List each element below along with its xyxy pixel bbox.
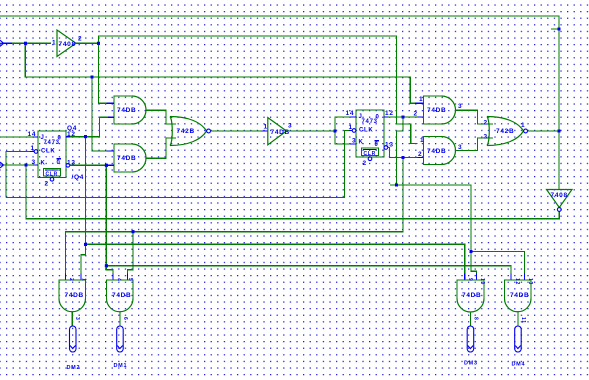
buffer U1 [57, 30, 76, 57]
buffer U4 [268, 118, 287, 145]
FF2 Qbar bubble [384, 146, 388, 150]
svg-text:8: 8 [473, 317, 479, 320]
svg-text:9: 9 [467, 278, 473, 281]
svg-text:742B: 742B [496, 128, 514, 135]
svg-text:K: K [41, 161, 46, 167]
rail2 y=218.8 triangle out to K [26, 165, 559, 219]
junction at (25.4,43.3) [24, 42, 27, 45]
wire U4 out to FF2 J/K [287, 117, 351, 144]
svg-text:1: 1 [81, 278, 87, 281]
svg-text:0: 0 [57, 160, 61, 166]
junction at (106.4,165.3) [105, 164, 108, 167]
svg-text:0: 0 [375, 142, 379, 148]
svg-text:1: 1 [52, 40, 56, 47]
junction dots top layer [24, 28, 561, 268]
wire net top rail y=16 [0, 16, 559, 190]
AND gate U5 [424, 96, 442, 124]
U11 output stub [517, 312, 519, 326]
svg-text:5: 5 [127, 278, 133, 281]
junction at (396.5,185) [395, 184, 398, 187]
svg-text:1: 1 [521, 122, 525, 129]
svg-text:DM3: DM3 [464, 361, 478, 367]
junction at (85.5,244.4) [84, 243, 87, 246]
OR gate OR1 [170, 117, 207, 146]
wire buffer U1 output [76, 42, 99, 44]
svg-text:12: 12 [514, 278, 520, 285]
svg-text:1: 1 [419, 96, 423, 103]
FF1 CLK wire from rail1 [6, 152, 30, 198]
flip-flop FF2 7473 [356, 110, 384, 157]
svg-text:6: 6 [122, 317, 128, 320]
junction at (106.4,265.8) [105, 264, 108, 267]
svg-text:CLR: CLR [46, 171, 58, 177]
svg-text:14: 14 [346, 110, 355, 117]
junction at (92,77) [91, 76, 94, 79]
FF2 CLK bubble [352, 129, 356, 133]
svg-text:2: 2 [484, 120, 488, 127]
OR1 output bubble [207, 129, 211, 133]
svg-text:3: 3 [74, 317, 80, 320]
FF2 J pin stub [350, 116, 356, 118]
FF1 Qbar bubble [66, 164, 70, 168]
OR2 output bubble [524, 129, 528, 133]
wire buffer out down to U2.A [99, 43, 109, 103]
svg-text:K: K [359, 140, 364, 146]
svg-text:10: 10 [479, 278, 485, 285]
wire y=185 [390, 185, 477, 274]
svg-text:3: 3 [484, 134, 488, 141]
FF1 K wire [4, 164, 33, 166]
connector DM4 [515, 326, 522, 352]
junction at (403,117) [402, 116, 405, 119]
svg-text:J: J [359, 114, 363, 120]
FF2 CLR bubble [368, 157, 372, 161]
flip-flop FF1 7473 [38, 131, 66, 178]
wire OR1 to buffer U4 [211, 130, 262, 132]
svg-text:74DB: 74DB [462, 292, 481, 299]
wire jog to U9.A [106, 266, 113, 274]
svg-text:11: 11 [520, 317, 526, 324]
junction at (403,157.5) [402, 156, 405, 159]
svg-text:12: 12 [385, 110, 394, 117]
svg-text:2: 2 [78, 36, 82, 43]
svg-text:74DB: 74DB [65, 292, 84, 299]
svg-text:74DB: 74DB [117, 155, 136, 162]
svg-text:74DB: 74DB [427, 107, 446, 114]
svg-text:0: 0 [376, 115, 380, 121]
FF1 CLR box [44, 169, 61, 177]
junction at (98.5,43.3) [97, 42, 100, 45]
svg-text:1: 1 [349, 124, 353, 131]
svg-text:J: J [41, 135, 45, 141]
FF2 Qbar wire to U6.B [388, 148, 418, 158]
U8 output stub [71, 312, 73, 326]
junction at (133,231.7) [132, 230, 135, 233]
FF2 Qbar net down to rail3 [66, 158, 404, 274]
connector DM2 [70, 326, 77, 352]
FF2 K pin stub [350, 143, 356, 145]
svg-text:0: 0 [58, 136, 62, 142]
junction at (335,131) [334, 130, 337, 133]
FF1 J input wire [0, 136, 33, 138]
FF2 CLR box [362, 148, 379, 156]
svg-text:1: 1 [264, 124, 268, 131]
wire y=266 to U11.A [106, 266, 511, 274]
FF1 Qbar wire to U3.B [70, 164, 108, 166]
rail4 y=244.4 to U10.A [86, 244, 465, 273]
svg-text:7408: 7408 [59, 41, 76, 48]
svg-text:74DB: 74DB [271, 129, 290, 136]
wire U2 out to OR1 [146, 110, 176, 124]
FF1 CLR bubble [50, 178, 54, 182]
triangle buffer U12 pointing down [547, 190, 573, 208]
svg-text:7408: 7408 [551, 192, 568, 199]
U12 output bubble [557, 208, 561, 212]
svg-text:3: 3 [288, 123, 292, 130]
svg-text:74DB: 74DB [112, 292, 131, 299]
svg-text:2: 2 [414, 111, 418, 118]
wire U5 out to OR2 [456, 110, 494, 124]
wire line B y=36 to U6.A [99, 36, 418, 144]
FF1 Qbar net down [105, 165, 107, 265]
svg-text:74DB: 74DB [427, 148, 446, 155]
AND gate U8 (vertical) [59, 280, 86, 299]
FF1 CLK bubble [34, 150, 38, 154]
svg-text:2: 2 [68, 278, 74, 281]
svg-text:4: 4 [116, 278, 122, 281]
AND gate U2 [114, 96, 132, 124]
svg-text:74DB: 74DB [117, 107, 136, 114]
svg-text:CLK: CLK [41, 149, 55, 155]
wire OR2 out to right rail [528, 130, 560, 132]
svg-text:13: 13 [527, 278, 533, 285]
junction at (471,251.5) [470, 250, 473, 253]
FF1 Q net down to U8.B and rail4 [81, 137, 86, 274]
FF2 Q wire to U5.B [384, 116, 388, 118]
svg-text:Q4: Q4 [67, 125, 77, 132]
connector DM1 [117, 326, 124, 352]
off-page connector left (input) [0, 40, 4, 46]
rail1 y=197.5 CLK-CLK [6, 131, 349, 198]
FF2 Q net zigzag down to y=185 wire [397, 117, 404, 185]
wire buffer U1 input [4, 42, 12, 44]
svg-text:DM4: DM4 [512, 362, 526, 368]
svg-text:2: 2 [363, 160, 367, 167]
off-page connector left K [0, 162, 4, 168]
svg-text:CLK: CLK [359, 128, 373, 134]
svg-text:74DB: 74DB [510, 292, 529, 299]
svg-text:/Q4: /Q4 [72, 174, 85, 181]
svg-text:1: 1 [420, 137, 424, 144]
svg-text:2: 2 [45, 181, 49, 188]
wire to U9.B [128, 232, 134, 274]
wire y=77 feed line [25, 43, 415, 103]
junction at (558.5,131) NOR2 output tie [558, 130, 561, 133]
svg-text:CLR: CLR [364, 151, 376, 157]
wire U3 out to OR1 [146, 138, 176, 158]
svg-text:2: 2 [418, 151, 422, 158]
junction at (558.5,29) [558, 28, 561, 31]
wire stub at (551,29) [551, 28, 559, 30]
FF1 Q wire to U2.B [66, 136, 70, 138]
AND gate U3 [114, 144, 132, 172]
wire U6 out to OR2 [456, 138, 494, 151]
junction at (85.5,136.6) [84, 135, 87, 138]
svg-text:DM2: DM2 [67, 365, 81, 371]
wire to U3 input A [92, 77, 108, 151]
wire to U11.B [471, 252, 525, 274]
U10 output stub [470, 312, 472, 326]
svg-text:DM1: DM1 [114, 363, 128, 369]
AND gate U6 [424, 137, 442, 165]
svg-text:3: 3 [458, 103, 462, 110]
svg-text:742B: 742B [177, 128, 195, 135]
AND gate U10 (vertical) [457, 280, 484, 299]
junction at (26,165) [25, 164, 28, 167]
U9 output stub [119, 312, 121, 326]
AND gate U11 (vertical) [505, 280, 532, 299]
OR gate OR2 [487, 117, 524, 146]
AND gate U9 (vertical) [107, 280, 134, 299]
connector DM3 [467, 326, 474, 352]
